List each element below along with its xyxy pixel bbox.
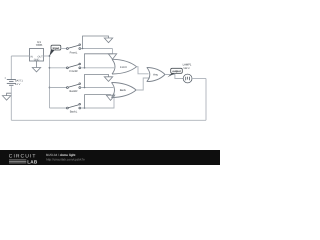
svg-text:BackL: BackL (70, 111, 78, 114)
bottom rail wire (11, 119, 206, 121)
ground branch row1 (83, 36, 113, 49)
left rail wire (10, 56, 12, 120)
svg-text:FrontL: FrontL (70, 51, 78, 54)
svg-text:BU5134 / dome light: BU5134 / dome light (46, 153, 75, 157)
OR gate Any (147, 68, 165, 82)
OR gate Back (112, 83, 137, 98)
bus wire vertical (49, 56, 51, 108)
junction node row3 (49, 87, 51, 89)
wire drop into OR1 upper input (112, 49, 114, 54)
svg-text:+: + (4, 76, 6, 80)
switch FrontR (67, 63, 81, 73)
svg-text:Any: Any (153, 73, 158, 77)
junction row4 branch (84, 107, 86, 109)
svg-text:output: output (172, 70, 180, 73)
switch FrontL (67, 44, 81, 55)
svg-text:5W-2: 5W-2 (183, 67, 190, 70)
svg-text:BackR: BackR (70, 90, 78, 93)
junction node row2 (49, 67, 51, 69)
junction row3 branch (84, 87, 86, 89)
svg-text:Back: Back (120, 88, 127, 92)
probe flag Input (49, 45, 60, 56)
footer bar (0, 150, 220, 165)
wire regulator OUT to bus (44, 55, 50, 57)
wire bus to switch FrontR (50, 67, 67, 69)
svg-text:IN: IN (30, 55, 33, 58)
wire probe to switch SW1 (61, 48, 67, 50)
wire switch BackR to OR2 upper input (81, 87, 114, 89)
wire lamp to right rail (192, 78, 206, 80)
battery BATT1 (4, 76, 23, 86)
wire switch BackL rise to OR2 lower input (81, 94, 114, 108)
ground under regulator (32, 61, 40, 72)
svg-text:LAB: LAB (27, 159, 38, 164)
ground branch row2 (85, 54, 117, 68)
wire OR2 output to OR3 lower input (136, 78, 150, 90)
lamp LAMP1 (183, 64, 192, 83)
junction node at probe (49, 55, 51, 57)
svg-text:7805: 7805 (36, 43, 43, 47)
ground branch row3 (85, 75, 113, 88)
wire from regulator IN to left rail (11, 55, 29, 57)
wire switch FrontL to gate drop (81, 48, 113, 50)
wire OR3 output to lamp (165, 75, 183, 79)
wire OR1 output to OR3 upper input (137, 67, 149, 74)
junction row1 branch (82, 48, 84, 50)
svg-text:Input: Input (53, 47, 60, 50)
junction row2 branch (84, 67, 86, 69)
ground branch row4 (85, 95, 115, 108)
right rail wire (205, 79, 207, 121)
wire bus to switch BackR (50, 87, 67, 89)
svg-text:12 V: 12 V (15, 83, 21, 86)
wire switch FrontR to OR1 lower input (81, 67, 114, 69)
wire bus corner to switch BackL (50, 107, 67, 109)
svg-text:http://circuitlab.com/cpzbk7e: http://circuitlab.com/cpzbk7e (46, 158, 85, 162)
svg-text:FrontR: FrontR (69, 70, 77, 73)
probe flag output (167, 68, 182, 77)
switch BackL (67, 103, 81, 113)
svg-text:Front: Front (120, 65, 127, 69)
ground at battery (2, 93, 11, 100)
OR gate Front (112, 59, 137, 74)
switch BackR (67, 83, 81, 93)
voltage regulator U1 7805 (30, 40, 44, 62)
